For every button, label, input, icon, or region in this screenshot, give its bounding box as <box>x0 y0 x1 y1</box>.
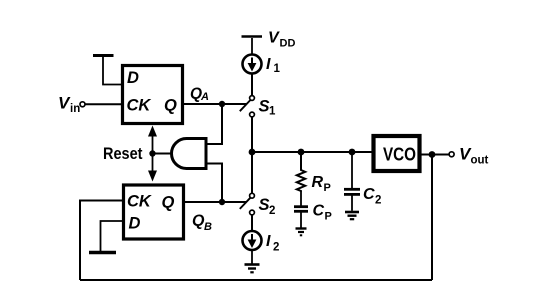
current source I2 <box>243 231 262 250</box>
resistor RP <box>297 152 305 192</box>
wire RP to CP <box>300 192 302 206</box>
svg-text:I: I <box>266 56 271 73</box>
wire AND lower input to QB junction <box>206 164 222 203</box>
wire VCO output <box>422 154 449 156</box>
svg-text:2: 2 <box>375 195 381 207</box>
wire S2 to I2 <box>251 215 253 231</box>
wire CP to ground <box>300 213 302 228</box>
wire QA from FF1 Q <box>184 103 246 105</box>
svg-text:Q: Q <box>162 194 175 212</box>
wire QA junction to AND upper input <box>206 104 222 144</box>
svg-text:I: I <box>266 233 271 250</box>
wire Vin to FF1 CK <box>85 103 121 105</box>
input terminal Vin <box>80 102 85 107</box>
ground bar FF2 D <box>89 251 116 254</box>
svg-text:C: C <box>363 186 375 203</box>
node at RP branch <box>298 149 305 156</box>
svg-text:D: D <box>127 69 139 87</box>
wire FF2 CK to feedback rail <box>80 201 122 281</box>
wire QB from FF2 Q <box>184 201 246 203</box>
flip-flop FF2 box <box>124 185 184 239</box>
svg-text:2: 2 <box>273 242 279 254</box>
node at S branch <box>249 149 256 156</box>
capacitor C2 <box>344 188 360 191</box>
wire VDD to I1 <box>251 38 253 55</box>
Reset down arrowhead <box>148 171 157 182</box>
svg-text:Reset: Reset <box>103 144 143 163</box>
output terminal <box>449 152 454 157</box>
svg-text:DD: DD <box>280 38 296 50</box>
feedback wire Vout to bottom rail <box>431 155 433 281</box>
svg-text:2: 2 <box>269 205 275 217</box>
wire high bar to FF1 D <box>103 57 121 85</box>
wire AND output to Reset node <box>153 153 172 155</box>
Reset up arrowhead <box>148 126 157 137</box>
capacitor CP <box>294 205 308 208</box>
svg-text:V: V <box>268 30 280 47</box>
switch S1 <box>250 96 255 101</box>
node Vout junction <box>429 151 436 158</box>
Reset vertical line <box>152 133 154 174</box>
svg-text:B: B <box>204 221 212 233</box>
wire I1 to S1 <box>251 74 253 96</box>
svg-text:C: C <box>313 203 325 220</box>
svg-text:R: R <box>312 174 324 191</box>
main charge-pump node wire <box>252 151 372 153</box>
wire S1 to output node <box>251 117 253 152</box>
svg-text:A: A <box>200 91 209 103</box>
wire C2 to ground <box>351 196 353 211</box>
wire I2 to ground <box>251 250 253 264</box>
svg-text:1: 1 <box>269 106 276 118</box>
svg-text:S: S <box>259 196 270 214</box>
ground C2 <box>345 211 359 214</box>
AND gate G1 (mirrored, inputs right, output left) <box>172 139 206 169</box>
ground I2 <box>245 263 260 266</box>
wire node to S2 <box>251 152 253 193</box>
node at C2 branch <box>349 149 356 156</box>
svg-text:VCO: VCO <box>383 144 416 165</box>
switch S2 <box>250 193 255 198</box>
svg-text:in: in <box>70 103 80 115</box>
current source I1 <box>243 55 262 74</box>
VCO box U1 <box>374 136 420 171</box>
svg-text:CK: CK <box>127 193 152 211</box>
node QB junction <box>219 199 225 205</box>
svg-text:1: 1 <box>274 63 281 75</box>
svg-text:P: P <box>325 211 332 223</box>
wire node to C2 <box>351 152 353 188</box>
flip-flop FF1 box <box>123 66 183 124</box>
svg-text:P: P <box>324 182 331 194</box>
svg-text:D: D <box>129 215 141 233</box>
svg-text:CK: CK <box>127 97 152 115</box>
node Reset junction <box>149 150 155 156</box>
node QA junction <box>219 101 225 107</box>
wire FF2 D to ground bar <box>101 221 123 251</box>
svg-text:out: out <box>471 155 489 167</box>
svg-text:S: S <box>259 98 270 116</box>
bottom feedback rail <box>80 279 432 281</box>
svg-text:Q: Q <box>164 97 177 115</box>
logic-high bar for FF1 D input <box>93 54 114 57</box>
VDD bar <box>242 35 263 38</box>
ground CP <box>296 227 307 229</box>
